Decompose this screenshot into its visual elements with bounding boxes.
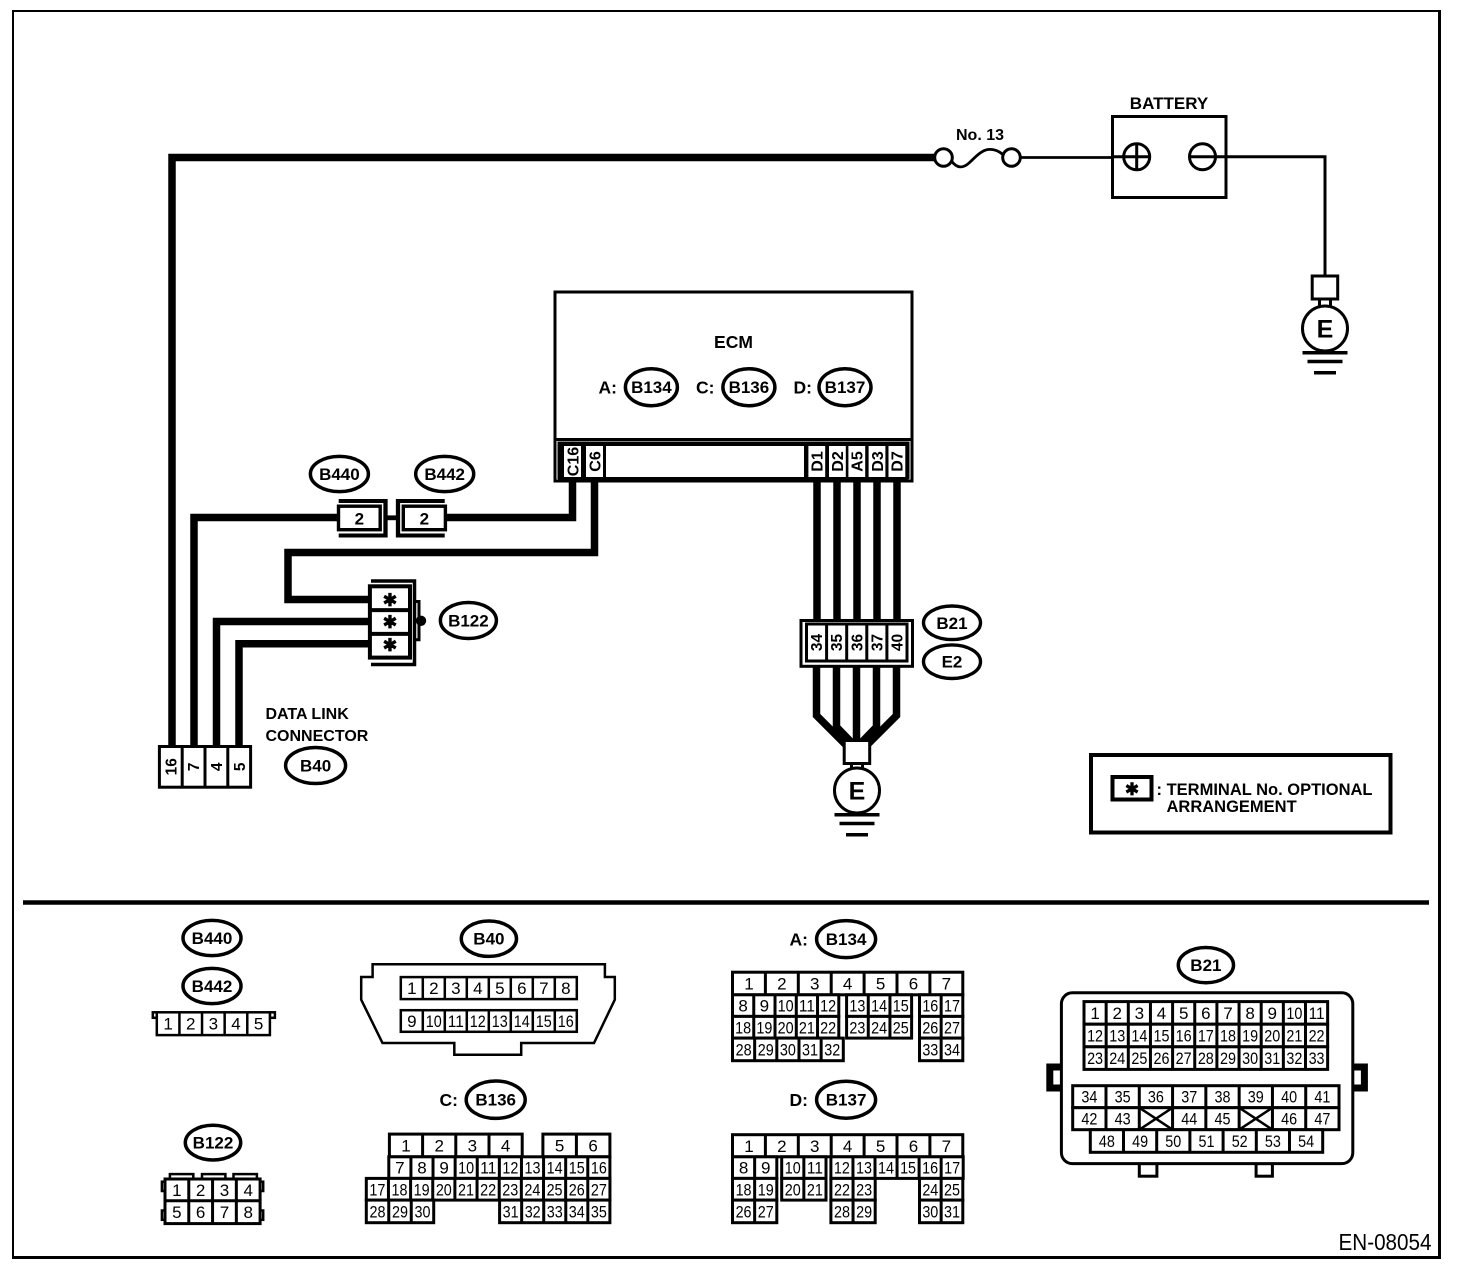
svg-text:52: 52 [1232,1132,1248,1151]
svg-text:2: 2 [355,510,364,529]
svg-text:35: 35 [591,1202,607,1221]
svg-text:B134: B134 [631,378,672,397]
svg-text:12: 12 [470,1012,486,1031]
svg-text:12: 12 [834,1159,850,1178]
svg-text:4: 4 [473,979,482,998]
svg-text:33: 33 [1309,1049,1325,1068]
svg-text:B440: B440 [192,929,233,948]
svg-text:6: 6 [588,1136,597,1155]
svg-text:11: 11 [448,1012,464,1031]
svg-text:22: 22 [834,1180,850,1199]
svg-text:8: 8 [561,979,570,998]
svg-text:3: 3 [468,1136,477,1155]
svg-text:45: 45 [1215,1110,1231,1129]
svg-text:CONNECTOR: CONNECTOR [266,728,369,745]
svg-text:B137: B137 [826,1091,867,1110]
svg-text:4: 4 [501,1136,510,1155]
svg-text:30: 30 [780,1040,796,1059]
svg-text:22: 22 [480,1180,496,1199]
svg-text:No. 13: No. 13 [956,127,1004,144]
svg-text:13: 13 [849,997,865,1016]
svg-text:20: 20 [778,1018,794,1037]
svg-text:27: 27 [1176,1049,1192,1068]
svg-text:2: 2 [429,979,438,998]
svg-text:14: 14 [547,1159,563,1178]
svg-text:2: 2 [186,1015,195,1034]
svg-text:1: 1 [172,1181,181,1200]
svg-text:B136: B136 [475,1091,516,1110]
svg-text:34: 34 [944,1040,960,1059]
svg-text:10: 10 [1286,1004,1302,1023]
svg-text:11: 11 [799,997,815,1016]
svg-text:21: 21 [799,1018,815,1037]
svg-text:44: 44 [1181,1110,1197,1129]
svg-text:6: 6 [196,1203,205,1222]
svg-text:D:: D: [794,378,812,398]
svg-text:4: 4 [843,1137,852,1156]
svg-text:28: 28 [834,1202,850,1221]
svg-text:✱: ✱ [383,590,398,610]
svg-text:14: 14 [1131,1027,1147,1046]
svg-text:5: 5 [1179,1004,1188,1023]
svg-text:40: 40 [889,634,906,651]
svg-text:34: 34 [569,1202,585,1221]
svg-text:7: 7 [539,979,548,998]
svg-text:9: 9 [439,1159,448,1178]
svg-text:7: 7 [395,1159,404,1178]
svg-text:29: 29 [392,1202,408,1221]
svg-text:51: 51 [1199,1132,1215,1151]
svg-text:D3: D3 [870,451,887,472]
svg-text:3: 3 [810,1137,819,1156]
svg-text:49: 49 [1132,1132,1148,1151]
svg-text:18: 18 [735,1018,751,1037]
svg-text:31: 31 [503,1202,519,1221]
svg-text:31: 31 [802,1040,818,1059]
svg-text:17: 17 [944,997,960,1016]
svg-text:2: 2 [196,1181,205,1200]
svg-text:B440: B440 [319,465,360,484]
svg-text:13: 13 [525,1159,541,1178]
svg-text:B40: B40 [473,930,504,949]
svg-text:4: 4 [231,1015,240,1034]
svg-text:17: 17 [944,1159,960,1178]
svg-text:B137: B137 [825,378,866,397]
svg-text:30: 30 [414,1202,430,1221]
svg-text:✱: ✱ [1125,780,1139,799]
svg-text:15: 15 [569,1159,585,1178]
svg-text:23: 23 [502,1180,518,1199]
svg-text:21: 21 [458,1180,474,1199]
svg-text:17: 17 [1198,1027,1214,1046]
svg-text:1: 1 [744,1137,753,1156]
svg-text:3: 3 [209,1015,218,1034]
svg-text:12: 12 [502,1159,518,1178]
svg-text:E2: E2 [942,653,963,672]
svg-text:B40: B40 [300,757,331,776]
svg-text:18: 18 [392,1180,408,1199]
svg-text:48: 48 [1099,1132,1115,1151]
svg-text:18: 18 [736,1180,752,1199]
svg-text:16: 16 [591,1159,607,1178]
svg-text:47: 47 [1314,1110,1330,1129]
svg-text:20: 20 [436,1180,452,1199]
svg-text:3: 3 [451,979,460,998]
svg-text:17: 17 [369,1180,385,1199]
svg-text:7: 7 [220,1203,229,1222]
svg-text:25: 25 [944,1180,960,1199]
svg-text:7: 7 [942,975,951,994]
svg-text:16: 16 [922,1159,938,1178]
svg-text:2: 2 [1112,1004,1121,1023]
svg-text:38: 38 [1215,1088,1231,1107]
svg-text:11: 11 [807,1159,823,1178]
svg-text:1: 1 [407,979,416,998]
svg-text:5: 5 [172,1203,181,1222]
svg-text:4: 4 [209,762,226,771]
svg-text:2: 2 [777,975,786,994]
svg-text:23: 23 [856,1180,872,1199]
svg-text:10: 10 [458,1159,474,1178]
svg-text:33: 33 [547,1202,563,1221]
svg-text:B442: B442 [192,977,233,996]
svg-text:B134: B134 [826,930,867,949]
svg-text:21: 21 [807,1180,823,1199]
svg-text:13: 13 [856,1159,872,1178]
svg-text:A5: A5 [850,451,867,472]
svg-text:12: 12 [820,997,836,1016]
svg-text:C6: C6 [587,451,604,472]
svg-text:10: 10 [785,1159,801,1178]
svg-text:E: E [1317,316,1334,344]
svg-text:15: 15 [893,997,909,1016]
svg-text:53: 53 [1265,1132,1281,1151]
svg-text:21: 21 [1286,1027,1302,1046]
svg-text:33: 33 [922,1040,938,1059]
svg-text:19: 19 [1242,1027,1258,1046]
svg-text:B442: B442 [424,465,465,484]
svg-text:9: 9 [1268,1004,1277,1023]
svg-text:8: 8 [738,997,747,1016]
svg-text:11: 11 [1309,1004,1325,1023]
svg-text:B122: B122 [448,612,489,631]
svg-text:40: 40 [1281,1088,1297,1107]
svg-text:32: 32 [824,1040,840,1059]
svg-text:7: 7 [186,762,203,771]
svg-text:D:: D: [790,1090,808,1110]
svg-text:15: 15 [1154,1027,1170,1046]
svg-text:27: 27 [944,1018,960,1037]
svg-text:37: 37 [1181,1088,1197,1107]
svg-text:14: 14 [871,997,887,1016]
svg-text:9: 9 [407,1012,416,1031]
svg-text:✱: ✱ [383,635,398,655]
svg-text:25: 25 [547,1180,563,1199]
svg-text:36: 36 [1148,1088,1164,1107]
svg-text:37: 37 [869,634,886,651]
svg-text:6: 6 [517,979,526,998]
svg-text:25: 25 [1131,1049,1147,1068]
svg-text:DATA LINK: DATA LINK [266,706,350,723]
svg-text:2: 2 [434,1136,443,1155]
svg-text:16: 16 [163,758,180,776]
svg-text:4: 4 [243,1181,252,1200]
svg-text:5: 5 [876,1137,885,1156]
svg-text:31: 31 [1264,1049,1280,1068]
svg-text:2: 2 [777,1137,786,1156]
svg-text:2: 2 [420,510,429,529]
svg-text:46: 46 [1281,1110,1297,1129]
svg-text:26: 26 [922,1018,938,1037]
svg-text:EN-08054: EN-08054 [1339,1229,1432,1255]
svg-text:B21: B21 [1190,956,1221,975]
svg-text:19: 19 [756,1018,772,1037]
svg-text:8: 8 [243,1203,252,1222]
svg-text:12: 12 [1087,1027,1103,1046]
svg-text:7: 7 [942,1137,951,1156]
svg-text:5: 5 [876,975,885,994]
svg-text:27: 27 [758,1202,774,1221]
svg-text:23: 23 [1087,1049,1103,1068]
svg-text:27: 27 [591,1180,607,1199]
svg-text:B122: B122 [193,1134,234,1153]
svg-text:C16: C16 [565,447,582,476]
svg-text:19: 19 [758,1180,774,1199]
svg-text:22: 22 [1309,1027,1325,1046]
svg-text:25: 25 [893,1018,909,1037]
svg-text:1: 1 [744,975,753,994]
svg-text:4: 4 [1157,1004,1166,1023]
svg-text:28: 28 [1198,1049,1214,1068]
svg-text:3: 3 [810,975,819,994]
svg-text:16: 16 [1176,1027,1192,1046]
svg-text:24: 24 [922,1180,938,1199]
svg-text:13: 13 [1109,1027,1125,1046]
svg-text:ARRANGEMENT: ARRANGEMENT [1167,798,1297,816]
svg-text:22: 22 [820,1018,836,1037]
svg-text:B21: B21 [936,614,967,633]
svg-text:8: 8 [417,1159,426,1178]
svg-text:24: 24 [524,1180,540,1199]
svg-text:16: 16 [558,1012,574,1031]
svg-text:7: 7 [1223,1004,1232,1023]
svg-text:26: 26 [736,1202,752,1221]
svg-text:ECM: ECM [714,332,753,352]
svg-text:28: 28 [370,1202,386,1221]
svg-text:C:: C: [440,1090,458,1110]
svg-text:32: 32 [525,1202,541,1221]
svg-text:: TERMINAL No. OPTIONAL: : TERMINAL No. OPTIONAL [1157,781,1373,799]
svg-text:14: 14 [514,1012,530,1031]
svg-text:15: 15 [536,1012,552,1031]
svg-text:24: 24 [1109,1049,1125,1068]
svg-text:5: 5 [254,1015,263,1034]
svg-text:29: 29 [1220,1049,1236,1068]
svg-text:6: 6 [1201,1004,1210,1023]
svg-text:18: 18 [1220,1027,1236,1046]
svg-text:50: 50 [1165,1132,1181,1151]
svg-text:A:: A: [790,930,808,950]
svg-text:30: 30 [1242,1049,1258,1068]
svg-text:35: 35 [1115,1088,1131,1107]
svg-text:1: 1 [1090,1004,1099,1023]
svg-text:B136: B136 [729,378,770,397]
svg-text:C:: C: [696,378,714,398]
svg-text:20: 20 [785,1180,801,1199]
svg-text:D7: D7 [890,451,907,472]
svg-text:54: 54 [1298,1132,1314,1151]
svg-text:34: 34 [1081,1088,1097,1107]
svg-text:19: 19 [414,1180,430,1199]
svg-text:30: 30 [922,1202,938,1221]
svg-text:35: 35 [829,634,846,652]
svg-text:11: 11 [480,1159,496,1178]
svg-text:1: 1 [401,1136,410,1155]
svg-text:23: 23 [849,1018,865,1037]
svg-text:9: 9 [760,997,769,1016]
svg-text:6: 6 [909,975,918,994]
svg-text:10: 10 [778,997,794,1016]
svg-text:5: 5 [232,762,249,771]
svg-text:✱: ✱ [383,612,398,632]
svg-text:31: 31 [944,1202,960,1221]
svg-text:3: 3 [1135,1004,1144,1023]
svg-text:43: 43 [1115,1110,1131,1129]
svg-text:34: 34 [809,634,826,652]
svg-text:D2: D2 [830,451,847,472]
svg-text:E: E [849,778,866,806]
svg-text:6: 6 [909,1137,918,1156]
svg-text:1: 1 [163,1015,172,1034]
svg-text:41: 41 [1314,1088,1330,1107]
svg-text:3: 3 [220,1181,229,1200]
svg-text:13: 13 [492,1012,508,1031]
svg-text:9: 9 [761,1159,770,1178]
svg-text:BATTERY: BATTERY [1130,94,1209,113]
svg-text:39: 39 [1248,1088,1264,1107]
svg-text:8: 8 [1245,1004,1254,1023]
svg-text:8: 8 [739,1159,748,1178]
svg-text:16: 16 [922,997,938,1016]
svg-text:36: 36 [849,634,866,652]
svg-text:28: 28 [736,1040,752,1059]
svg-text:26: 26 [569,1180,585,1199]
svg-text:42: 42 [1081,1110,1097,1129]
svg-text:29: 29 [856,1202,872,1221]
svg-text:D1: D1 [810,451,827,472]
svg-text:15: 15 [900,1159,916,1178]
svg-text:32: 32 [1286,1049,1302,1068]
svg-text:10: 10 [426,1012,442,1031]
svg-text:5: 5 [495,979,504,998]
svg-text:5: 5 [555,1136,564,1155]
svg-text:29: 29 [758,1040,774,1059]
svg-text:14: 14 [878,1159,894,1178]
svg-text:24: 24 [871,1018,887,1037]
svg-text:20: 20 [1264,1027,1280,1046]
svg-text:26: 26 [1154,1049,1170,1068]
svg-text:A:: A: [599,378,617,398]
svg-text:4: 4 [843,975,852,994]
